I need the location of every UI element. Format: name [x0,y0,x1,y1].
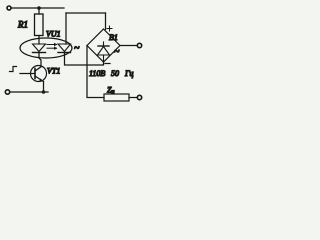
bridge internal diode [98,42,110,62]
wire top rail [12,7,65,9]
transistor VT1 [31,66,47,82]
svg-text:R1: R1 [17,20,28,30]
LED diode of VU1 [33,44,46,53]
minus sign [105,63,110,65]
svg-text:110В50Гц: 110В50Гц [89,69,134,78]
svg-text:~: ~ [114,47,120,58]
svg-text:VT1: VT1 [47,67,60,76]
wire bridge left vertex down [87,46,104,98]
terminal X4 right bottom [137,95,141,99]
wire R1 top lead [38,8,40,14]
node junction at R1 top [37,6,41,10]
terminal X1 top-left [7,6,11,10]
resistor R1 [35,14,44,36]
wire photodiode bottom lead [65,53,104,66]
coupling arrows [47,43,58,50]
plus sign [107,26,112,31]
wire bridge right to terminal [120,45,137,47]
node junction at emitter [42,90,46,94]
wire bottom rail [11,91,49,93]
wire emitter lead [43,82,45,93]
pulse input symbol [10,67,17,72]
wire top link to bridge [66,12,106,14]
bridge rectifier B1 diamond [87,29,120,62]
wire photodiode top lead up [65,13,67,44]
wire load to terminal [129,97,137,99]
load Zн [104,94,129,101]
terminal X2 bottom-left [5,90,9,94]
wire base lead [20,73,35,75]
wire down to bridge plus [105,13,107,30]
svg-text:VU1: VU1 [46,30,61,39]
photodiode of VU1 [58,44,71,53]
terminal X3 right top [137,43,141,47]
svg-text:~: ~ [74,43,80,54]
wire LED cathode to VT1 collector [39,53,41,67]
optocoupler VU1 envelope [20,38,72,58]
svg-text:В1: В1 [109,33,118,42]
wire R1 bottom lead into optocoupler [38,36,40,45]
